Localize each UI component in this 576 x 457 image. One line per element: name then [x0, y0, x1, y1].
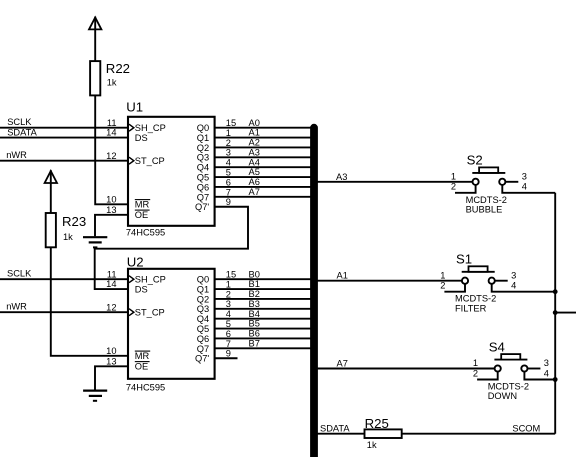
svg-text:A3: A3: [249, 147, 260, 157]
svg-text:S2: S2: [467, 153, 483, 168]
S2 contact circle left: [473, 179, 479, 185]
svg-text:14: 14: [106, 279, 116, 289]
svg-text:4: 4: [226, 309, 231, 319]
wire net A3 from bus to S2 pin 1: [317, 181, 473, 183]
svg-text:R22: R22: [106, 61, 130, 76]
wire U1 Q4 to bus (net A4): [215, 166, 312, 168]
svg-text:SCLK: SCLK: [7, 117, 32, 127]
wire U2 Q6 to bus (net B6): [215, 337, 312, 339]
svg-text:S4: S4: [489, 339, 505, 354]
svg-text:B5: B5: [249, 319, 260, 329]
ground (U2 OE): [83, 390, 107, 392]
svg-text:9: 9: [226, 197, 231, 207]
svg-text:3: 3: [511, 270, 516, 280]
bus (thick vertical net bus): [310, 128, 318, 457]
svg-text:B6: B6: [249, 329, 260, 339]
svg-text:7: 7: [226, 187, 231, 197]
svg-text:4: 4: [226, 158, 231, 168]
wire U1 OE to ground: [95, 215, 128, 237]
wire U2 OE to ground: [95, 366, 128, 389]
wire R25 to SCOM vertical: [402, 433, 556, 435]
svg-text:3: 3: [522, 171, 527, 181]
svg-text:2: 2: [226, 289, 231, 299]
S1 contact circle left: [462, 278, 468, 284]
svg-text:R25: R25: [365, 416, 389, 431]
svg-text:ST_CP: ST_CP: [135, 308, 165, 318]
wire U2 Q2 to bus (net B2): [215, 298, 312, 300]
S2 button actuator: [479, 167, 498, 173]
svg-text:SDATA: SDATA: [320, 424, 350, 434]
svg-text:MCDTS-2: MCDTS-2: [466, 195, 507, 205]
svg-text:13: 13: [106, 356, 116, 366]
resistor R22: [90, 61, 100, 95]
svg-text:BUBBLE: BUBBLE: [466, 204, 503, 214]
svg-text:SH_CP: SH_CP: [135, 275, 166, 285]
svg-text:Q2: Q2: [197, 294, 209, 304]
svg-text:9: 9: [226, 349, 231, 359]
wire SCLK net to U1 SH_CP: [0, 127, 128, 129]
svg-text:1k: 1k: [367, 440, 377, 450]
wire R23 bottom to U2 MR pin: [51, 247, 128, 355]
power flag VCC (above R22): [94, 17, 96, 30]
svg-text:2: 2: [473, 368, 478, 378]
wire U1 Q1 to bus (net A1): [215, 137, 312, 139]
svg-text:14: 14: [106, 128, 116, 138]
U1 pin 11 clock arrow (SH_CP): [129, 124, 134, 131]
power flag VCC (above R23): [50, 170, 52, 182]
wire U2 Q7' (pin 9) stub: [215, 357, 238, 359]
svg-text:Q7: Q7: [197, 344, 209, 354]
wire U1 Q5 to bus (net A5): [215, 176, 312, 178]
svg-text:B2: B2: [249, 289, 260, 299]
wire S4 pin 2 stub: [477, 372, 498, 380]
wire U2 Q5 to bus (net B5): [215, 328, 312, 330]
svg-text:1: 1: [451, 171, 456, 181]
svg-text:U1: U1: [126, 100, 143, 115]
S4 button cap bar: [494, 359, 527, 361]
wire S1 pin 4: [492, 284, 556, 292]
resistor R23: [46, 213, 56, 247]
svg-text:B0: B0: [249, 269, 260, 279]
wire S2 pin 4: [502, 185, 555, 193]
svg-text:MR: MR: [135, 351, 150, 361]
svg-text:R23: R23: [62, 214, 86, 229]
svg-text:2: 2: [226, 138, 231, 148]
svg-text:3: 3: [226, 299, 231, 309]
S1 button actuator: [469, 266, 488, 272]
svg-text:74HC595: 74HC595: [126, 382, 165, 392]
svg-text:DOWN: DOWN: [488, 391, 517, 401]
wire nWR net to U2 ST_CP: [0, 311, 128, 313]
svg-text:Q6: Q6: [197, 334, 209, 344]
svg-text:1: 1: [440, 270, 445, 280]
junction S1 pin 4 on SCOM: [553, 289, 558, 294]
wire SDATA net to U1 DS: [0, 137, 128, 139]
svg-text:Q7': Q7': [195, 354, 209, 364]
svg-text:Q5: Q5: [197, 324, 209, 334]
wire U2 Q3 to bus (net B3): [215, 308, 312, 310]
wire SDATA from bus to R25: [317, 433, 365, 435]
svg-text:Q7: Q7: [197, 192, 209, 202]
svg-text:Q1: Q1: [197, 284, 209, 294]
svg-text:A1: A1: [249, 128, 260, 138]
svg-text:DS: DS: [135, 284, 148, 294]
svg-text:SDATA: SDATA: [7, 128, 37, 138]
svg-text:4: 4: [544, 368, 549, 378]
wire SCOM vertical (S2/S1/S4 common): [554, 193, 556, 434]
svg-text:nWR: nWR: [6, 301, 27, 311]
svg-text:10: 10: [106, 194, 116, 204]
svg-text:2: 2: [451, 182, 456, 192]
svg-text:B7: B7: [249, 338, 260, 348]
wire SCLK net to U2 SH_CP: [0, 278, 128, 280]
svg-text:Q3: Q3: [197, 153, 209, 163]
svg-text:A6: A6: [249, 177, 260, 187]
svg-text:B1: B1: [249, 279, 260, 289]
svg-text:OE: OE: [135, 210, 148, 220]
wire U1 Q6 to bus (net A6): [215, 186, 312, 188]
junction S4 pin 4 on SCOM: [553, 377, 558, 382]
svg-text:A7: A7: [337, 359, 348, 369]
wire U1 Q0 to bus (net A0): [215, 127, 312, 129]
svg-text:Q2: Q2: [197, 143, 209, 153]
resistor R25: [365, 429, 402, 438]
op-amp U1 74HC595 shift register body: [128, 117, 215, 226]
U2 pin 12 clock arrow (ST_CP): [129, 309, 134, 316]
svg-text:5: 5: [226, 168, 231, 178]
svg-text:Q4: Q4: [197, 163, 209, 173]
svg-text:11: 11: [107, 118, 117, 128]
svg-text:DS: DS: [135, 133, 148, 143]
svg-text:Q7': Q7': [195, 202, 209, 212]
S2 contact circle right: [499, 179, 505, 185]
svg-text:Q6: Q6: [197, 182, 209, 192]
svg-text:Q4: Q4: [197, 314, 209, 324]
svg-text:10: 10: [106, 346, 116, 356]
svg-text:Q0: Q0: [197, 123, 209, 133]
svg-text:7: 7: [226, 339, 231, 349]
svg-text:1: 1: [226, 279, 231, 289]
svg-text:B4: B4: [249, 309, 260, 319]
wire U1 Q2 to bus (net A2): [215, 146, 312, 148]
wire S4 pin 4: [524, 372, 555, 380]
svg-text:A4: A4: [249, 157, 260, 167]
svg-text:1k: 1k: [63, 232, 73, 242]
S4 contact circle left: [495, 365, 501, 371]
svg-text:11: 11: [107, 269, 117, 279]
wire S1 pin 2 stub: [444, 284, 465, 292]
svg-text:OE: OE: [135, 362, 148, 372]
svg-text:1k: 1k: [107, 78, 117, 88]
svg-text:3: 3: [544, 358, 549, 368]
wire S2 pin 3 stub: [505, 181, 518, 183]
svg-text:A5: A5: [249, 167, 260, 177]
op-amp U2 74HC595 shift register body: [128, 269, 215, 379]
svg-text:6: 6: [226, 329, 231, 339]
svg-text:13: 13: [106, 205, 116, 215]
svg-text:FILTER: FILTER: [455, 303, 487, 313]
svg-text:B3: B3: [249, 299, 260, 309]
svg-text:A1: A1: [337, 271, 348, 281]
svg-text:ST_CP: ST_CP: [135, 156, 165, 166]
svg-text:A0: A0: [249, 118, 260, 128]
S1 button cap bar: [462, 271, 495, 273]
svg-text:U2: U2: [127, 254, 144, 269]
svg-text:S1: S1: [456, 252, 472, 267]
wire U2 Q1 to bus (net B1): [215, 288, 312, 290]
svg-text:Q0: Q0: [197, 275, 209, 285]
S4 contact circle right: [521, 365, 527, 371]
wire S1 pin 3 stub: [495, 280, 508, 282]
svg-text:MCDTS-2: MCDTS-2: [488, 382, 529, 392]
svg-text:4: 4: [522, 182, 527, 192]
wire S4 pin 3 stub: [527, 368, 540, 370]
wire VCC to R22 top: [94, 29, 96, 61]
svg-text:SCLK: SCLK: [7, 268, 32, 278]
ground (U1 OE): [83, 236, 107, 238]
wire R22 bottom to U1 MR pin: [95, 95, 128, 204]
svg-text:MCDTS-2: MCDTS-2: [455, 294, 496, 304]
U2 pin 11 clock arrow (SH_CP): [129, 276, 134, 283]
svg-text:12: 12: [106, 302, 116, 312]
svg-text:74HC595: 74HC595: [126, 228, 165, 238]
svg-text:15: 15: [226, 118, 236, 128]
svg-text:3: 3: [226, 148, 231, 158]
S2 button cap bar: [472, 172, 505, 174]
wire U2 Q4 to bus (net B4): [215, 318, 312, 320]
wire U2 Q7 to bus (net B7): [215, 347, 312, 349]
svg-text:SH_CP: SH_CP: [135, 123, 166, 133]
svg-text:A2: A2: [249, 138, 260, 148]
svg-text:Q3: Q3: [197, 304, 209, 314]
wire U1 Q7 to bus (net A7): [215, 196, 312, 198]
svg-text:SCOM: SCOM: [512, 424, 540, 434]
wire nWR net to U1 ST_CP: [0, 160, 128, 162]
wire U1 Q3 to bus (net A3): [215, 156, 312, 158]
svg-text:1: 1: [473, 358, 478, 368]
svg-text:15: 15: [226, 270, 236, 280]
wire VCC to R23 top: [50, 183, 52, 213]
wire SCOM stub to right edge: [555, 312, 576, 314]
svg-text:Q5: Q5: [197, 173, 209, 183]
svg-text:6: 6: [226, 177, 231, 187]
U1 pin 12 clock arrow (ST_CP): [129, 157, 134, 164]
S4 button actuator: [501, 354, 520, 360]
svg-text:MR: MR: [135, 200, 150, 210]
svg-text:4: 4: [511, 281, 516, 291]
wire S2 pin 2 stub: [455, 185, 476, 193]
wire net A7 from bus to S4 pin 1: [317, 368, 495, 370]
svg-text:A3: A3: [336, 172, 347, 182]
svg-text:nWR: nWR: [6, 150, 27, 160]
wire U2 Q0 to bus (net B0): [215, 278, 312, 280]
wire U1 Q7' (pin 9) cascade to U2 DS: [95, 207, 248, 289]
junction SCOM right stub: [553, 310, 558, 315]
wire net A1 from bus to S1 pin 1: [317, 280, 462, 282]
svg-text:12: 12: [106, 151, 116, 161]
S1 contact circle right: [489, 278, 495, 284]
svg-text:A7: A7: [249, 187, 260, 197]
svg-text:5: 5: [226, 319, 231, 329]
svg-text:2: 2: [440, 281, 445, 291]
svg-text:1: 1: [226, 128, 231, 138]
svg-text:Q1: Q1: [197, 133, 209, 143]
